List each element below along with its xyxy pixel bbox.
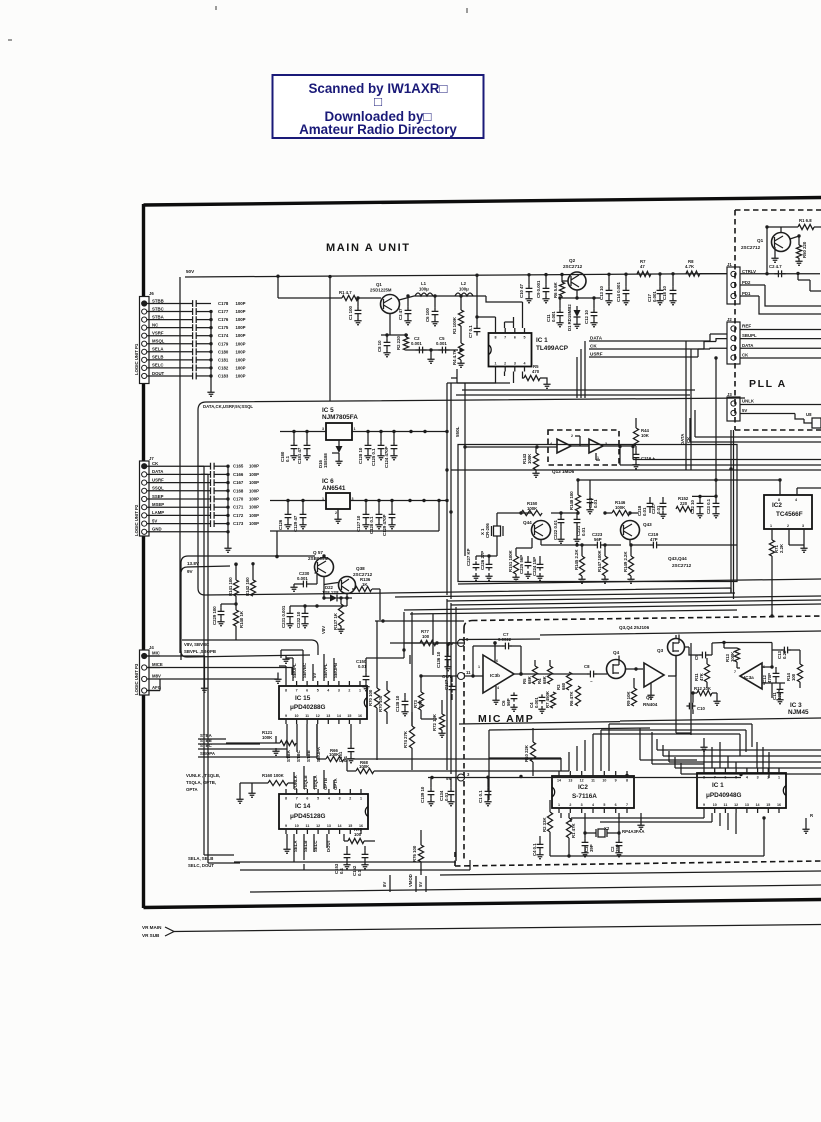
wire loop bottom right xyxy=(571,818,704,822)
svg-text:RN404: RN404 xyxy=(643,702,658,707)
svg-text:C2 4.7: C2 4.7 xyxy=(769,264,782,269)
svg-text:1: 1 xyxy=(359,689,361,693)
svg-text:C168: C168 xyxy=(233,488,244,493)
svg-text:4: 4 xyxy=(795,498,797,502)
long horizontal wire y=394 xyxy=(456,394,690,396)
svg-text:470P: 470P xyxy=(767,673,772,683)
wire out of Q13 output xyxy=(603,445,633,447)
svg-text:5V: 5V xyxy=(418,882,423,887)
J2 pin SBUPL xyxy=(731,336,736,341)
vertical bus from 50V rail down left side xyxy=(179,277,181,653)
svg-text:R147 100K: R147 100K xyxy=(597,549,602,572)
bus wire y=437 with corner down xyxy=(695,436,821,438)
dashed box MIC AMP left edge xyxy=(464,621,472,863)
svg-text:C3 47: C3 47 xyxy=(398,308,403,320)
J6 pin DOUT with capacitor C183 100P xyxy=(142,373,147,378)
svg-text:6: 6 xyxy=(306,689,308,693)
svg-text:R151 100K: R151 100K xyxy=(508,549,513,572)
vertical drop x=731 long xyxy=(731,430,734,599)
vertical from bus to C150/IC15 region xyxy=(403,612,405,658)
wire small loop right of PLL Q1 xyxy=(798,273,821,291)
svg-text:C4 0.1: C4 0.1 xyxy=(532,843,537,856)
wire y=621 into MIC AMP dashed corner xyxy=(375,620,464,622)
wire lines bottom of mic amp xyxy=(620,718,821,721)
svg-text:TSQLA, OPTB,: TSQLA, OPTB, xyxy=(186,780,216,785)
svg-text:9: 9 xyxy=(703,803,705,807)
svg-text:PD1: PD1 xyxy=(742,291,751,296)
svg-text:DATA: DATA xyxy=(152,469,163,474)
schematic frame border bottom xyxy=(144,900,821,908)
svg-text:16: 16 xyxy=(777,803,781,807)
rounded bus left edge down xyxy=(198,410,388,595)
svg-text:0.001: 0.001 xyxy=(551,311,556,322)
vertical Q3 drain down xyxy=(676,643,691,735)
svg-text:C182: C182 xyxy=(218,365,229,370)
rounded supply box left edge xyxy=(181,556,315,660)
wire verticals feeding IC15 labels from harness xyxy=(281,650,303,658)
svg-text:SSQL: SSQL xyxy=(152,486,164,491)
svg-text:C179: C179 xyxy=(218,341,229,346)
vertical drop x=716 from J2 area xyxy=(715,358,717,480)
svg-text:220: 220 xyxy=(680,501,688,506)
wire J3 5V to U8 stub xyxy=(740,414,812,424)
wires from bus into J2 left side xyxy=(698,334,727,349)
wire from L2 line down to IC1 region xyxy=(486,296,523,302)
svg-text:Q 57: Q 57 xyxy=(313,550,323,555)
svg-text:IC3b: IC3b xyxy=(490,673,500,678)
svg-text:Q1: Q1 xyxy=(757,238,764,243)
svg-text:0.1: 0.1 xyxy=(285,455,290,462)
J7 pin 5V with capacitor C173 100P xyxy=(142,521,147,526)
svg-text:6: 6 xyxy=(496,659,498,663)
svg-text:VUNLK , TSQLB,: VUNLK , TSQLB, xyxy=(186,773,220,778)
svg-text:C7 0.1: C7 0.1 xyxy=(468,325,473,338)
svg-text:100: 100 xyxy=(354,832,362,837)
svg-text:IC2: IC2 xyxy=(578,784,588,791)
svg-text:Q3,Q4 25J106: Q3,Q4 25J106 xyxy=(619,625,650,630)
page tick mark top 2 xyxy=(466,8,468,13)
bus wire y=611 xyxy=(410,610,737,614)
dashed box Q13 1MD6 xyxy=(548,430,619,465)
svg-text:6: 6 xyxy=(306,797,308,801)
svg-text:C167: C167 xyxy=(233,480,244,485)
svg-text:100μ: 100μ xyxy=(459,287,469,292)
svg-text:C173: C173 xyxy=(233,521,244,526)
svg-text:R6 5.6K: R6 5.6K xyxy=(553,281,558,298)
IC6 pin2 stub xyxy=(337,509,339,516)
wire J3 UNLK to right edge xyxy=(740,404,821,406)
svg-text:J3: J3 xyxy=(727,392,732,397)
svg-text:MSEP: MSEP xyxy=(152,502,164,507)
bus corner verticals x=690/695 xyxy=(690,410,695,442)
dashed box PLL A top edge xyxy=(735,209,821,211)
svg-text:Q2: Q2 xyxy=(569,258,576,263)
svg-text:5: 5 xyxy=(524,336,526,340)
svg-text:DATA,CK,USRF,5V,SSQL: DATA,CK,USRF,5V,SSQL xyxy=(203,404,253,409)
svg-text:SELC, DOUT: SELC, DOUT xyxy=(188,863,214,868)
J6 pin SELB with capacitor C181 100P xyxy=(142,357,147,362)
svg-text:39P: 39P xyxy=(589,844,594,852)
svg-text:16: 16 xyxy=(358,714,362,718)
bus wire y=459 xyxy=(633,447,821,460)
J2 pin CK xyxy=(731,355,736,360)
svg-text:IC 1: IC 1 xyxy=(536,337,548,344)
svg-text:3: 3 xyxy=(757,776,759,780)
svg-text:3: 3 xyxy=(514,362,516,366)
wires above IC1 DIP xyxy=(704,742,744,768)
svg-text:15: 15 xyxy=(348,824,352,828)
svg-text:IC 1: IC 1 xyxy=(712,782,724,789)
svg-text:C174: C174 xyxy=(218,333,229,338)
wires S-7116A left pins loop xyxy=(489,758,561,800)
svg-text:C13 10: C13 10 xyxy=(599,286,604,300)
svg-text:100P: 100P xyxy=(236,357,246,362)
svg-text:1: 1 xyxy=(778,776,780,780)
svg-text:Q43,Q44: Q43,Q44 xyxy=(668,556,687,561)
svg-text:1: 1 xyxy=(558,803,560,807)
vertical x=412 from bus y612 down to R74 xyxy=(411,612,413,726)
transistor Q1 emitter to C8 node xyxy=(381,314,408,336)
svg-text:NC: NC xyxy=(152,322,158,327)
Q44 emitter to C223 wire xyxy=(541,540,595,546)
bus wire y=593 xyxy=(395,593,735,597)
long wire under ICs y=856 xyxy=(550,818,764,856)
svg-text:C14 0.001: C14 0.001 xyxy=(616,282,621,302)
J6 pin STBA with capacitor C176 100P xyxy=(142,317,147,322)
ground stub in harness area xyxy=(703,738,705,744)
wire Q2 emitter down xyxy=(562,290,600,298)
svg-text:10: 10 xyxy=(295,714,299,718)
svg-text:C1 100: C1 100 xyxy=(348,306,353,320)
svg-text:D1 RD15MB2: D1 RD15MB2 xyxy=(567,304,572,331)
bus wire y=603 xyxy=(451,600,821,605)
svg-text:100K: 100K xyxy=(527,453,532,464)
bus wire y=465 xyxy=(620,447,821,466)
svg-text:7: 7 xyxy=(734,670,736,674)
IC14 uPD45128G DIP-16 xyxy=(279,794,368,829)
svg-text:C183: C183 xyxy=(218,373,229,378)
svg-text:100: 100 xyxy=(422,634,430,639)
svg-text:1: 1 xyxy=(478,665,480,669)
svg-text:CK: CK xyxy=(152,461,159,466)
svg-text:13: 13 xyxy=(327,824,331,828)
svg-text:C129 47: C129 47 xyxy=(293,515,298,532)
svg-text:1: 1 xyxy=(770,524,772,528)
J7 pin GND xyxy=(142,529,147,534)
IC3b top pin to 8V xyxy=(494,643,496,663)
bus wire y=469 long xyxy=(451,469,821,471)
svg-text:1: 1 xyxy=(360,797,362,801)
J4 pin MICE xyxy=(142,665,147,670)
svg-text:2SC2712: 2SC2712 xyxy=(672,563,692,568)
svg-text:NJM7805FA: NJM7805FA xyxy=(322,414,358,421)
wire Q1 output to Q3 xyxy=(668,656,676,676)
svg-text:0.1: 0.1 xyxy=(339,867,344,874)
Q1 RN404 ground pin xyxy=(650,683,652,692)
grounds below R160 area xyxy=(251,783,253,790)
wire into Q13 input xyxy=(465,446,557,448)
svg-text:4.7K: 4.7K xyxy=(685,264,695,269)
svg-text:100P: 100P xyxy=(236,373,246,378)
svg-text:10K: 10K xyxy=(641,433,650,438)
svg-text:CK: CK xyxy=(742,353,749,358)
svg-text:R2 220: R2 220 xyxy=(396,336,401,350)
svg-text:2: 2 xyxy=(767,776,769,780)
svg-text:C166: C166 xyxy=(233,472,244,477)
svg-text:NJM45: NJM45 xyxy=(788,709,809,716)
svg-text:R149 2.2K: R149 2.2K xyxy=(623,551,628,572)
wire Q1 PLL collector up to feed line xyxy=(767,227,798,233)
svg-text:2SC2712: 2SC2712 xyxy=(563,264,583,269)
svg-text:9: 9 xyxy=(285,824,287,828)
J7 pin LAMP with capacitor C172 100P xyxy=(142,513,147,518)
riser from rail to Q1 line xyxy=(277,276,279,298)
svg-text:13: 13 xyxy=(568,779,572,783)
svg-text:13.8V: 13.8V xyxy=(187,561,200,566)
page tick mark top xyxy=(215,6,217,10)
rounded bus wire top edge y=401 xyxy=(198,398,745,410)
svg-text:C10 47: C10 47 xyxy=(519,284,524,298)
svg-text:47P: 47P xyxy=(650,537,658,542)
svg-text:Amateur Radio Directory: Amateur Radio Directory xyxy=(299,122,457,137)
svg-text:UNLK: UNLK xyxy=(742,399,755,404)
J3 pin 5V xyxy=(731,410,736,415)
svg-text:IC3a: IC3a xyxy=(744,675,754,680)
wire J4 AFG run xyxy=(147,679,160,691)
svg-text:9: 9 xyxy=(615,779,617,783)
wire 5V node horizontal xyxy=(428,778,741,862)
svg-text:2: 2 xyxy=(349,797,351,801)
svg-text:REF: REF xyxy=(742,324,751,329)
svg-text:DATA: DATA xyxy=(680,434,685,445)
svg-text:2SC2712: 2SC2712 xyxy=(741,245,761,250)
connector J7 (LOGIC UNIT P2) xyxy=(140,461,150,536)
wire IC3a pins right side xyxy=(762,667,772,698)
svg-text:C124 470P: C124 470P xyxy=(384,446,389,468)
connector J4 (LOGIC UNIT P3) xyxy=(140,650,150,695)
J1 pin CTRLV xyxy=(731,271,736,276)
long verticals feeding S-7116A block xyxy=(447,599,456,860)
J6 pin VSRF with capacitor C174 100P xyxy=(142,333,147,338)
VR chevron arrow xyxy=(165,927,174,936)
svg-text:12: 12 xyxy=(316,824,320,828)
svg-text:R70 100: R70 100 xyxy=(378,695,383,712)
ground left of IC15 xyxy=(279,666,286,672)
svg-text:SELA: SELA xyxy=(152,347,163,352)
svg-text:IC2: IC2 xyxy=(772,502,782,509)
svg-text:USRF: USRF xyxy=(590,352,603,357)
svg-text:14: 14 xyxy=(338,824,342,828)
svg-text:C232 10: C232 10 xyxy=(296,611,301,628)
svg-text:STBB: STBB xyxy=(152,298,164,303)
svg-text:C229 100: C229 100 xyxy=(212,606,217,625)
connector J3 (UNLK 5V) xyxy=(727,397,740,421)
svg-text:C138 10: C138 10 xyxy=(395,695,400,712)
J2 pin DATA xyxy=(731,345,736,350)
svg-text:−: − xyxy=(590,679,593,684)
Q13 internal pin stubs xyxy=(571,436,600,460)
svg-text:2.2K: 2.2K xyxy=(779,543,784,553)
buffer triangle 2 inside Q13 xyxy=(589,439,603,453)
svg-text:PD2: PD2 xyxy=(742,280,751,285)
svg-text:R74 27K: R74 27K xyxy=(403,730,408,748)
svg-text:6: 6 xyxy=(615,803,617,807)
wire Q4 to Q1 triangle xyxy=(625,668,643,670)
svg-text:J4: J4 xyxy=(149,645,154,650)
svg-text:SELB: SELB xyxy=(152,355,163,360)
svg-text:VR MAIN: VR MAIN xyxy=(142,925,162,930)
svg-text:100P: 100P xyxy=(236,333,246,338)
svg-text:100P: 100P xyxy=(249,488,259,493)
svg-text:100K: 100K xyxy=(615,505,626,510)
svg-text:56P: 56P xyxy=(506,698,511,706)
svg-text:100P: 100P xyxy=(249,505,259,510)
svg-text:100K: 100K xyxy=(359,764,370,769)
svg-text:V8V: V8V xyxy=(321,626,326,634)
svg-text:13: 13 xyxy=(745,803,749,807)
bus wire y=442 with corner down xyxy=(690,441,821,443)
svg-text:R2 33K: R2 33K xyxy=(542,817,547,832)
svg-text:4: 4 xyxy=(327,689,329,693)
svg-text:R145 2.2K: R145 2.2K xyxy=(574,549,579,570)
svg-text:C216 +: C216 + xyxy=(641,456,655,461)
long horizontal wire y=389 xyxy=(462,389,695,391)
svg-text:IC 6: IC 6 xyxy=(322,478,334,485)
wire below IC6 to bus xyxy=(270,501,439,532)
svg-text:MAIN A UNIT: MAIN A UNIT xyxy=(326,242,411,254)
svg-text:8: 8 xyxy=(626,779,628,783)
svg-text:LOGIC UNIT P3: LOGIC UNIT P3 xyxy=(134,663,139,695)
op-amp IC3a triangle (pointing left) xyxy=(740,663,762,689)
dashed box PLL A bottom edge xyxy=(735,429,821,431)
svg-text:IC 15: IC 15 xyxy=(295,695,311,702)
svg-text:MSQL: MSQL xyxy=(152,339,165,344)
svg-text:C178: C178 xyxy=(218,301,229,306)
wire Q1 PLL branch from rail xyxy=(766,227,768,274)
svg-text:C126: C126 xyxy=(278,519,283,530)
svg-text:11: 11 xyxy=(724,803,728,807)
J6 pin SELA with capacitor C180 100P xyxy=(142,349,147,354)
J7 capacitor bus vertical + ground xyxy=(227,466,229,545)
svg-text:15: 15 xyxy=(766,803,770,807)
J4 pin AFG xyxy=(142,688,147,693)
svg-text:1: 1 xyxy=(597,456,599,460)
svg-text:47K: 47K xyxy=(699,672,704,681)
dashed box PLL A left edge xyxy=(734,210,736,430)
svg-text:7: 7 xyxy=(626,803,628,807)
svg-text:47: 47 xyxy=(640,264,645,269)
svg-text:0.01: 0.01 xyxy=(642,507,647,516)
svg-text:2: 2 xyxy=(348,689,350,693)
svg-text:100P: 100P xyxy=(236,317,246,322)
extra long wire y=582 below modulator box xyxy=(458,579,821,584)
svg-text:GND: GND xyxy=(152,527,162,532)
svg-text:R141 100: R141 100 xyxy=(228,577,233,596)
wires above IC15 from labels to pins xyxy=(293,650,334,681)
svg-text:8V: 8V xyxy=(382,882,387,887)
svg-text:Q38: Q38 xyxy=(356,566,365,571)
svg-text:0.001: 0.001 xyxy=(436,341,447,346)
svg-text:100P: 100P xyxy=(236,325,246,330)
svg-text:0.001: 0.001 xyxy=(411,341,422,346)
amplifier Q1 RN404 triangle xyxy=(644,663,664,687)
J7 pin DATA with capacitor C166 100P xyxy=(142,472,147,477)
svg-text:0.01: 0.01 xyxy=(444,792,449,801)
svg-text:C10: C10 xyxy=(697,706,705,711)
wire vertical inside modulator box xyxy=(464,447,466,556)
svg-text:C23 0.1: C23 0.1 xyxy=(706,498,711,514)
bottom long wire y=890 xyxy=(250,885,821,892)
svg-text:10: 10 xyxy=(295,824,299,828)
svg-text:Q4: Q4 xyxy=(613,650,620,655)
svg-text:C227 KP: C227 KP xyxy=(466,548,471,566)
svg-text:0.001: 0.001 xyxy=(297,576,308,581)
svg-text:8: 8 xyxy=(495,336,497,340)
svg-text:R1 6.8: R1 6.8 xyxy=(799,218,812,223)
svg-text:MICE: MICE xyxy=(152,662,163,667)
wire Q38 emitter/collector connections xyxy=(317,583,347,607)
svg-text:13: 13 xyxy=(326,714,330,718)
wire horizontal through caps y=496 xyxy=(692,495,716,497)
svg-text:C171: C171 xyxy=(233,505,244,510)
svg-text:0.01: 0.01 xyxy=(581,527,586,536)
svg-text:11: 11 xyxy=(591,779,595,783)
svg-text:J1: J1 xyxy=(727,262,732,267)
svg-text:2: 2 xyxy=(571,434,573,438)
IC5 input/output rail xyxy=(280,431,447,433)
J7 pin CK with capacitor C165 100P xyxy=(142,464,147,469)
wires above IC2 S-7116A xyxy=(561,724,609,771)
svg-text:5V: 5V xyxy=(742,408,747,413)
J6 capacitor bus vertical + ground xyxy=(210,312,212,390)
svg-text:10: 10 xyxy=(713,803,717,807)
wires STB bus left xyxy=(198,739,317,757)
svg-text:12: 12 xyxy=(580,779,584,783)
IC1 top pin wires xyxy=(496,302,523,328)
wire J4 MICE run right xyxy=(147,668,292,676)
svg-text:MIC: MIC xyxy=(152,651,160,656)
svg-text:5: 5 xyxy=(317,689,319,693)
svg-text:C9 0.001: C9 0.001 xyxy=(536,280,541,298)
vertical x=377 from y621 to R70 xyxy=(376,621,378,688)
svg-text:PLL A: PLL A xyxy=(749,378,787,390)
svg-text:100K: 100K xyxy=(262,735,273,740)
svg-text:4: 4 xyxy=(592,803,594,807)
svg-text:2: 2 xyxy=(569,803,571,807)
svg-text:56P: 56P xyxy=(594,537,602,542)
svg-text:0.001: 0.001 xyxy=(652,291,657,302)
svg-text:DOUT: DOUT xyxy=(152,371,165,376)
svg-text:USRF: USRF xyxy=(152,477,164,482)
svg-text:14: 14 xyxy=(756,803,760,807)
svg-text:R72 10K: R72 10K xyxy=(432,713,437,731)
svg-text:2: 2 xyxy=(787,524,789,528)
svg-text:9V: 9V xyxy=(187,569,194,574)
wires crossing S-7116A to IC1 bottom xyxy=(640,728,697,760)
svg-text:680: 680 xyxy=(561,682,566,690)
svg-text:4: 4 xyxy=(524,362,526,366)
svg-text:C18 10: C18 10 xyxy=(662,286,667,300)
svg-text:C181: C181 xyxy=(218,357,229,362)
svg-text:CR-206: CR-206 xyxy=(485,523,490,538)
svg-text:5: 5 xyxy=(603,803,605,807)
buffer triangle 1 inside Q13 xyxy=(557,439,571,453)
ground below IC14 pin9 xyxy=(286,834,288,846)
svg-text:0.001: 0.001 xyxy=(534,697,539,708)
svg-text:100P: 100P xyxy=(236,309,246,314)
resistor small + ground right margin xyxy=(805,818,807,826)
svg-text:VMOD: VMOD xyxy=(408,874,413,887)
